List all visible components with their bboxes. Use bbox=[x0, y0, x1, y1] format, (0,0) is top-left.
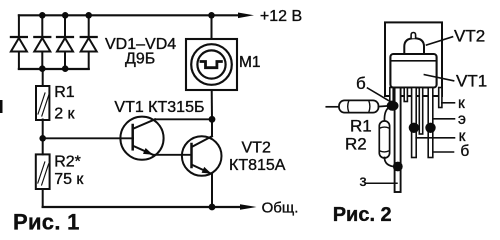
svg-text:VT2: VT2 bbox=[242, 140, 271, 157]
svg-text:2 к: 2 к bbox=[54, 106, 75, 123]
svg-text:Д9Б: Д9Б bbox=[125, 51, 155, 68]
svg-text:VT1: VT1 bbox=[456, 72, 487, 91]
svg-text:б: б bbox=[460, 143, 469, 160]
svg-text:б: б bbox=[356, 74, 366, 93]
svg-text:з: з bbox=[360, 173, 367, 190]
svg-text:+12 В: +12 В bbox=[260, 8, 302, 25]
svg-text:Рис. 2: Рис. 2 bbox=[333, 204, 392, 226]
svg-text:VT1 КТ315Б: VT1 КТ315Б bbox=[114, 99, 204, 116]
svg-text:М1: М1 bbox=[239, 54, 261, 71]
svg-text:э: э bbox=[458, 111, 466, 128]
svg-text:R1: R1 bbox=[350, 117, 372, 136]
svg-text:Общ.: Общ. bbox=[262, 200, 299, 217]
svg-text:Рис. 1: Рис. 1 bbox=[13, 210, 80, 235]
svg-text:к: к bbox=[458, 95, 465, 112]
svg-text:КТ815А: КТ815А bbox=[229, 157, 286, 174]
svg-text:R2: R2 bbox=[345, 135, 367, 154]
svg-text:75 к: 75 к bbox=[54, 171, 84, 188]
svg-text:VT2: VT2 bbox=[454, 26, 485, 45]
svg-text:R1: R1 bbox=[54, 84, 75, 101]
svg-text:R2*: R2* bbox=[54, 154, 81, 171]
